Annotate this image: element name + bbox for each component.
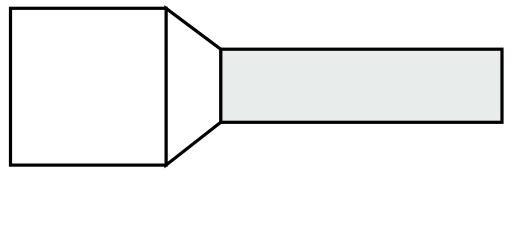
insulating collar (square body) bbox=[11, 8, 167, 165]
funnel transition bbox=[166, 8, 221, 165]
metal tube (crimp sleeve) bbox=[221, 49, 502, 122]
